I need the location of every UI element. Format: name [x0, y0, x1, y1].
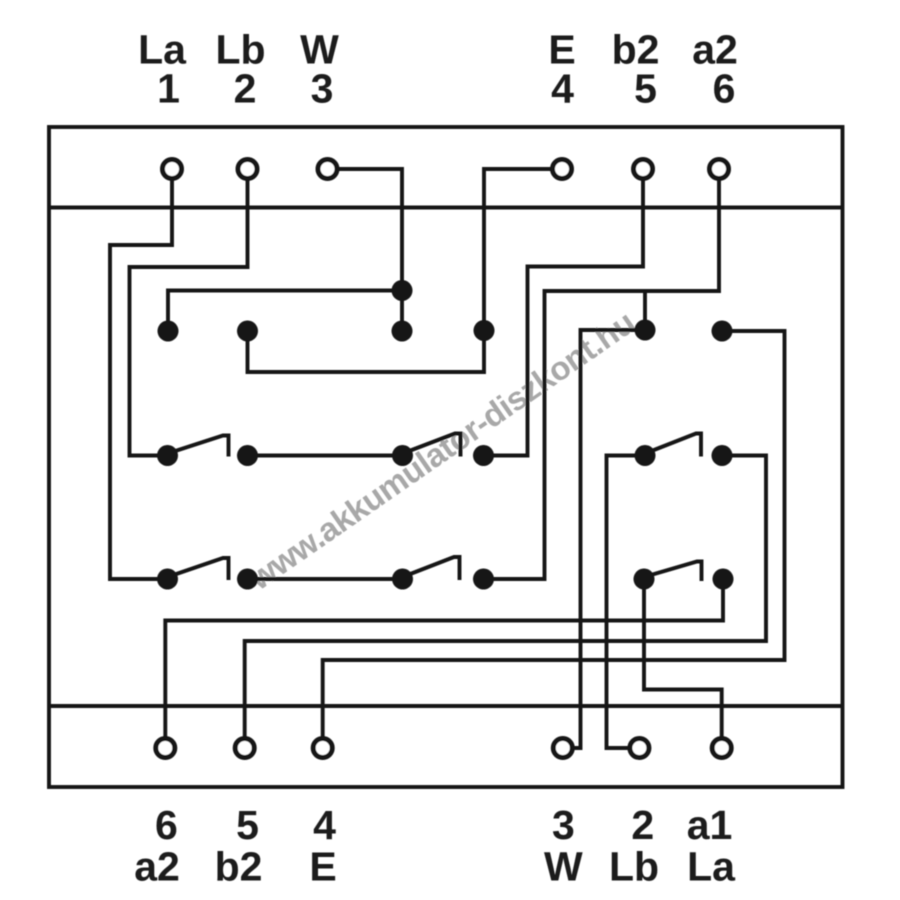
- svg-text:Lb: Lb: [609, 844, 659, 890]
- svg-text:3: 3: [311, 66, 334, 112]
- svg-text:6: 6: [713, 66, 736, 112]
- svg-text:W: W: [544, 844, 583, 890]
- svg-text:1: 1: [157, 66, 180, 112]
- svg-text:b2: b2: [215, 844, 263, 890]
- svg-text:3: 3: [552, 802, 575, 848]
- svg-text:5: 5: [236, 802, 259, 848]
- svg-text:a1: a1: [687, 802, 733, 848]
- svg-text:4: 4: [551, 66, 574, 112]
- svg-text:E: E: [309, 844, 336, 890]
- svg-text:2: 2: [234, 66, 257, 112]
- svg-text:La: La: [687, 844, 736, 890]
- svg-text:4: 4: [313, 802, 336, 848]
- svg-text:a2: a2: [134, 844, 180, 890]
- svg-text:5: 5: [634, 66, 657, 112]
- svg-text:6: 6: [155, 802, 178, 848]
- svg-text:2: 2: [631, 802, 654, 848]
